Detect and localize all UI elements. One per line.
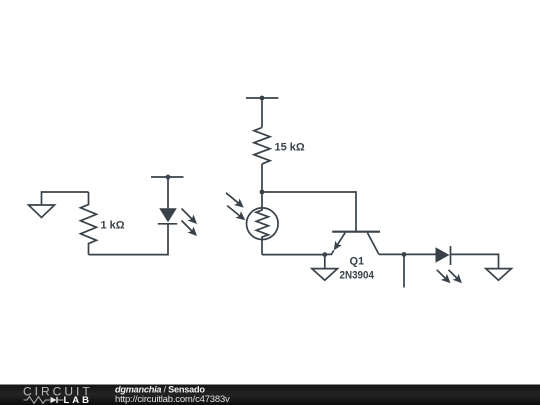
wire gnd G1 to R1 top	[42, 192, 89, 205]
footer url	[115, 394, 230, 405]
footer title dgmanchia / Sensado	[115, 384, 205, 394]
wire N2 to R2 top	[261, 98, 263, 128]
LED D1 emission arrow 2	[182, 221, 198, 237]
label R2 value 15 kOhm	[275, 142, 305, 154]
wire R1 bottom to D1 cathode	[89, 224, 169, 255]
wire photoresistor bottom to node N5	[262, 254, 325, 256]
svg-text:2N3904: 2N3904	[340, 270, 375, 282]
LED D1	[158, 208, 177, 224]
wire N3 to Q1 base	[262, 192, 356, 232]
LED D1 emission arrow 1	[182, 209, 198, 225]
footer bar	[0, 385, 540, 405]
ground G2	[486, 269, 512, 281]
LED D2 emission arrow 1	[437, 270, 451, 284]
transistor Q1 emitter with arrow	[325, 233, 345, 255]
label Q1 type 2N3904	[340, 270, 375, 282]
transistor Q1 collector	[367, 233, 379, 255]
CircuitLab logo text LAB	[64, 395, 93, 405]
resistor R2	[254, 128, 270, 164]
svg-text:http://circuitlab.com/c47383v: http://circuitlab.com/c47383v	[115, 394, 230, 405]
wire D2 cathode to ground G2	[451, 254, 499, 268]
svg-text:Q1: Q1	[350, 256, 365, 268]
transistor Q1 base bar	[332, 231, 380, 233]
resistor R1	[81, 192, 97, 255]
wire stub below N4	[403, 254, 405, 287]
LED D2 emission arrow 2	[449, 270, 463, 284]
node N4 junction dot	[402, 252, 407, 257]
wire N4 to D2 anode	[404, 253, 436, 255]
wire N5 to ground G3	[324, 255, 326, 269]
ground G1	[29, 205, 55, 218]
ground G3	[312, 269, 338, 281]
label Q1	[350, 256, 365, 268]
CircuitLab logo text CIRCUIT	[23, 385, 93, 399]
label R1 value 1 kOhm	[101, 220, 125, 232]
wire R2 bottom to node N3	[261, 164, 263, 192]
wire Q1 collector to node N4	[379, 253, 404, 255]
svg-text:1 kΩ: 1 kΩ	[101, 220, 125, 232]
svg-text:15 kΩ: 15 kΩ	[275, 142, 305, 154]
node N2 terminal bar	[246, 97, 278, 99]
photoresistor light arrow 1	[226, 193, 244, 208]
svg-text:LAB: LAB	[64, 395, 93, 405]
node N5 junction dot	[322, 252, 327, 257]
svg-text:dgmanchia / Sensado: dgmanchia / Sensado	[115, 384, 205, 394]
photoresistor R3 body	[246, 192, 278, 255]
node N1 junction dot	[166, 175, 171, 180]
photoresistor light arrow 2	[227, 206, 245, 221]
node N2 junction dot	[260, 96, 265, 101]
CircuitLab logo squiggle resistor and diode	[24, 397, 64, 404]
node N3 junction dot	[260, 190, 265, 195]
wire D1 anode to node bar N1	[167, 177, 169, 208]
LED D2	[436, 246, 451, 265]
node N1 terminal bar	[151, 176, 184, 178]
